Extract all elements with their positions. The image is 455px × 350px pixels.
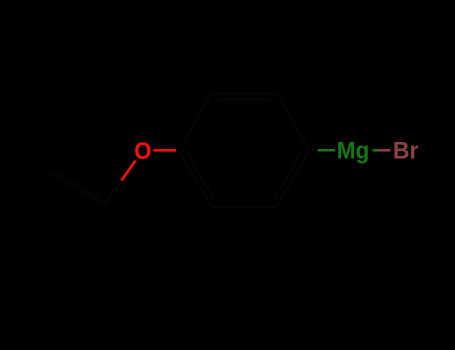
bond Mg-Br brown half [378, 149, 391, 152]
double bond CH=CH2 line 1 [49, 173, 104, 204]
bond ring-Mg green half [318, 149, 335, 152]
bond C-O dark half [176, 149, 179, 152]
svg-text:Br: Br [393, 137, 419, 164]
bond ring-Mg dark half [310, 149, 319, 152]
benzene ring C1-C6 [179, 93, 310, 206]
bond O-ring red half [154, 149, 177, 152]
svg-text:O: O [134, 138, 151, 165]
bond O-CH dark half [104, 181, 122, 205]
aromatic inner bond lower-left [187, 152, 214, 198]
aromatic inner bond lower-right [274, 152, 301, 198]
svg-text:Mg: Mg [337, 138, 370, 165]
aromatic inner bond top [217, 98, 270, 100]
double bond CH=CH2 line 2 [54, 172, 100, 198]
bond O-CH red part [122, 161, 136, 181]
bond Mg-Br green half [373, 149, 379, 152]
